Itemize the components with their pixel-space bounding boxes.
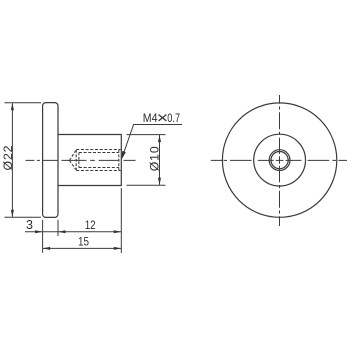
tapped hole hidden minor top <box>79 152 119 154</box>
svg-text:Ø10: Ø10 <box>148 146 162 171</box>
extension line at flange right <box>57 220 59 236</box>
tapped hole hidden outline major top <box>76 149 121 151</box>
leader line M4 <box>122 125 182 158</box>
thread end vertical <box>78 153 80 168</box>
drill cone upper flank <box>69 150 76 160</box>
arrow dia10 up <box>158 135 161 143</box>
svg-text:0.7: 0.7 <box>167 113 180 125</box>
dim line dia22 <box>11 103 13 217</box>
front view thread major circle <box>269 150 290 171</box>
extension line dia22 bottom <box>5 216 42 218</box>
extension line at flange left <box>42 220 44 253</box>
dim line dia10 <box>159 135 161 185</box>
extension line at boss face <box>120 188 122 253</box>
leader arrowhead <box>121 151 125 160</box>
flange (side view) <box>43 103 58 218</box>
arrow 15 right-pointing <box>114 247 122 250</box>
centerline front horizontal <box>211 159 347 161</box>
arrow 3 right-pointing <box>35 230 43 233</box>
extension line dia22 top <box>5 102 42 104</box>
front view tap minor circle <box>271 152 288 169</box>
svg-text:15: 15 <box>78 235 89 249</box>
hole mouth vertical <box>118 150 120 170</box>
arrow 12 left-pointing <box>58 230 66 233</box>
front view outer circle <box>222 103 336 217</box>
extension line dia10 bottom <box>127 184 166 186</box>
tapped hole hidden minor bottom <box>79 167 119 169</box>
arrow dia22 up <box>11 103 14 111</box>
arrow dia10 down <box>158 178 161 186</box>
arrow 15 left-pointing <box>43 247 51 250</box>
dim line 15 <box>43 247 122 249</box>
extension line dia10 top <box>127 134 166 136</box>
front view boss circle <box>254 134 306 186</box>
svg-text:M4: M4 <box>143 113 158 125</box>
arrow 12 right-pointing <box>114 230 122 233</box>
dim line 3 and 12 <box>25 231 121 233</box>
centerline front vertical <box>279 95 281 226</box>
boss body (side view) <box>58 135 121 186</box>
drill cone base line <box>75 150 77 170</box>
centerline left view <box>26 159 136 161</box>
tapped hole hidden outline major bottom <box>76 170 121 172</box>
arrow dia22 down <box>11 210 14 218</box>
drill cone lower flank <box>69 160 76 170</box>
svg-text:12: 12 <box>85 218 96 232</box>
svg-text:3: 3 <box>26 218 33 232</box>
svg-text:Ø22: Ø22 <box>1 145 15 170</box>
